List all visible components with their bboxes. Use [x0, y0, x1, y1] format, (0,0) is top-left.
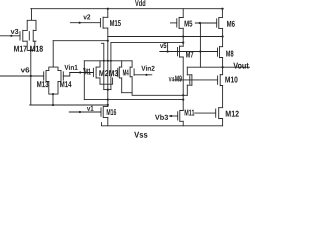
wire M8 source to Vout — [222, 58, 224, 68]
node M5M6 gate dot — [199, 22, 201, 24]
wire V4 to M9 M10 gates — [174, 79, 218, 81]
wire M13/M14 sources join — [49, 81, 58, 94]
node v5 wire crossing dot — [199, 50, 201, 52]
svg-text:M4: M4 — [123, 67, 129, 77]
wire M5 drain to Vdd — [182, 9, 184, 18]
wire M4 drain to W1 — [131, 61, 133, 67]
wire M14 gate riser to Vin1 — [63, 73, 70, 77]
node Vin1 dot — [79, 71, 81, 73]
transistor M10 — [218, 75, 223, 86]
wire M12 source corner to Vss rail — [222, 119, 224, 126]
wire M3 drain to W1 — [121, 61, 123, 67]
node wire B dot at tail — [107, 40, 109, 42]
transistor M15 — [100, 17, 107, 28]
wire Vout to right edge — [187, 66, 250, 68]
wire pair source cup — [104, 89, 111, 91]
wire v5 riser from wire C — [167, 43, 169, 52]
wire A tail to M6 source — [108, 36, 223, 38]
node tail dot at W3 — [107, 104, 109, 106]
wire M12 gate wire — [195, 112, 216, 114]
wire v2 to M15 gate — [70, 22, 100, 24]
svg-text:Vss: Vss — [134, 130, 148, 138]
node M13/M14 source dot — [52, 93, 54, 95]
node wire A dot at M6 source — [222, 35, 224, 37]
wire M3/M4 tail to line1 — [132, 93, 187, 96]
svg-text:M13: M13 — [37, 79, 49, 89]
wire M13/M14 tail drop to W3 — [52, 94, 54, 105]
transistor M7 — [178, 46, 184, 57]
transistor M8 — [218, 47, 223, 58]
wire W3 bias rail — [30, 104, 108, 106]
wire M6 source to M8 drain — [222, 28, 224, 46]
wire M16 source to Vss — [107, 117, 109, 125]
transistor M11 — [178, 110, 184, 121]
svg-text:v6: v6 — [21, 65, 30, 74]
node Vb3 dot — [170, 115, 172, 117]
wire M1 drain to W1 — [99, 61, 101, 67]
node v3 dot — [10, 35, 12, 37]
svg-text:M11: M11 — [184, 107, 194, 117]
node Vout dot — [222, 66, 224, 68]
svg-text:M8: M8 — [226, 48, 234, 58]
wire M6 gate to M5M6 gate wire — [195, 22, 216, 24]
wire M17/M18 drains to Vdd — [27, 9, 36, 31]
svg-text:M14: M14 — [60, 79, 72, 89]
wire v3 to M17 gate — [0, 35, 20, 37]
wire Vb3 to M11 gate — [169, 115, 177, 117]
wire M11 source to Vss — [182, 121, 184, 126]
svg-text:M9: M9 — [175, 74, 182, 84]
wire M7 source long column — [182, 57, 184, 111]
wire M5 gate stub — [170, 22, 176, 24]
svg-text:M1: M1 — [84, 67, 92, 77]
svg-text:M2M3: M2M3 — [99, 68, 119, 78]
Vdd rail — [31, 8, 224, 10]
wire M13/M14 drains join — [49, 67, 58, 71]
wire M13/M14 drain node riser to wire B — [52, 41, 54, 67]
wire M3 source down — [121, 78, 123, 93]
node v6 junction dot — [30, 75, 32, 77]
transistor M6 — [217, 17, 223, 28]
svg-text:v1: v1 — [87, 104, 94, 113]
wire M2 drain vertical — [101, 43, 103, 89]
node line1 dot — [182, 94, 184, 96]
transistor M14 — [58, 70, 63, 81]
node Vdd dot right end — [221, 8, 223, 10]
wire C riser down to row — [110, 43, 112, 90]
node v5 dot — [167, 50, 169, 52]
node wire C dot at M5/M7 — [182, 42, 184, 44]
node v2 dot — [79, 22, 81, 24]
node tail dot at W2 — [107, 99, 109, 101]
svg-text:M17: M17 — [14, 44, 28, 54]
wire Vin1 to M1 gate — [70, 72, 94, 74]
svg-text:v2: v2 — [83, 12, 90, 21]
wire M17/M18 sources join — [27, 41, 35, 50]
wire M1 source down — [99, 78, 101, 84]
node Vin2 dot — [145, 74, 147, 76]
svg-text:M5: M5 — [184, 19, 193, 29]
transistor M3 — [118, 67, 122, 78]
node W1 dot a — [103, 60, 105, 62]
svg-text:M16: M16 — [106, 107, 116, 117]
wire W1 left leg down — [83, 61, 85, 100]
wire M4 gate to Vin2 — [134, 74, 152, 76]
node tail dot at pair sources — [107, 89, 109, 91]
Vss rail — [102, 123, 223, 126]
svg-text:M10: M10 — [225, 75, 238, 85]
transistor M12 — [216, 108, 223, 119]
wire C to M7 drain — [111, 42, 183, 44]
transistor M17 — [20, 30, 27, 41]
svg-text:Vin2: Vin2 — [141, 64, 155, 73]
wire M17/M18 tail down through v6 — [30, 50, 32, 105]
node dot on left leg — [83, 68, 85, 70]
wire M3/M4 source connector — [122, 77, 132, 93]
wire B to M15 source node — [53, 40, 108, 42]
svg-text:M15: M15 — [110, 18, 122, 28]
wire M5M6 gate drop to Vout — [199, 23, 201, 67]
node W1 dot b — [110, 60, 112, 62]
transistor M5 — [177, 17, 183, 28]
svg-text:Vdd: Vdd — [135, 0, 146, 8]
wire M10 drain to Vout — [222, 67, 224, 75]
svg-text:V4: V4 — [169, 76, 175, 83]
node M17/M18 source dot — [30, 49, 32, 51]
wire connector M1/M3 sources — [100, 78, 113, 84]
svg-text:v5: v5 — [160, 41, 167, 50]
svg-text:Vout: Vout — [233, 61, 249, 71]
node W2 end dot — [182, 99, 184, 101]
node Vdd dot M15 drain tap — [107, 8, 109, 10]
svg-text:Vin1: Vin1 — [64, 63, 77, 72]
transistor M18 — [29, 30, 36, 41]
svg-text:M7: M7 — [186, 49, 194, 59]
wire W1 first stage output — [84, 60, 132, 62]
svg-text:M12: M12 — [225, 109, 239, 119]
transistor M1 — [93, 67, 100, 78]
wire M6 drain to Vdd — [221, 9, 223, 18]
transistor M13 — [44, 70, 49, 81]
wire M9 drain to Vout wire — [186, 67, 188, 75]
wire M15 source tail long vertical — [107, 28, 109, 107]
svg-text:Vb3: Vb3 — [155, 113, 168, 122]
wire M9 source to line1 — [186, 85, 188, 95]
svg-text:v3: v3 — [11, 27, 19, 36]
node W3 dot left — [52, 104, 54, 106]
wire W2 to M7 source column — [84, 99, 183, 101]
node wire A dot at M5 source — [182, 35, 184, 37]
node v1 dot — [79, 111, 81, 113]
wire M15 drain to Vdd — [107, 9, 109, 18]
transistor M16 — [101, 106, 108, 117]
transistor M9 — [187, 75, 192, 86]
wire v1 to M16 gate — [69, 111, 101, 113]
svg-text:M18: M18 — [30, 44, 44, 54]
transistor M4 — [130, 67, 134, 77]
wire v5 to M7 M8 gates — [160, 51, 218, 53]
svg-text:M6: M6 — [227, 19, 236, 29]
wire v6 to M13 gate — [0, 75, 44, 77]
wire M5 source to M7 drain — [182, 28, 184, 46]
node tail dot at W1 — [107, 60, 109, 62]
wire M10 source to M12 drain — [222, 86, 224, 108]
